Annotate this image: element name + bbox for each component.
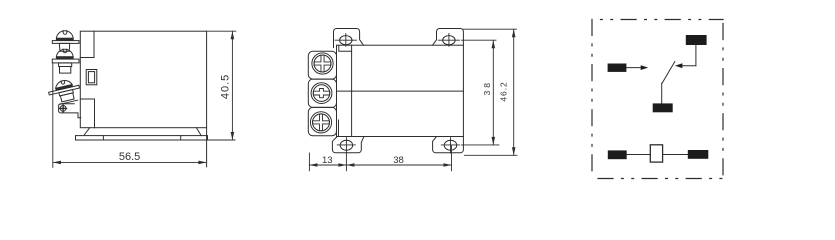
dim 38 left arrow xyxy=(346,163,354,167)
dim 40.5 top arrow xyxy=(231,31,235,39)
coil body xyxy=(650,145,662,162)
contact COM terminal xyxy=(608,64,627,72)
screw B washer plate xyxy=(52,59,79,63)
top-right mounting tab xyxy=(433,29,464,46)
screw A knurled band xyxy=(56,38,73,40)
dim 40.5 line xyxy=(231,31,233,140)
screw B shank lip xyxy=(59,63,72,67)
body mid parting line xyxy=(337,90,464,92)
terminal screw 2 inner xyxy=(313,85,330,102)
terminal screw 1 outer xyxy=(312,53,333,74)
screw C slot notch xyxy=(61,81,65,85)
coil terminal right xyxy=(688,150,709,159)
svg-text:13: 13 xyxy=(322,155,333,166)
svg-text:38: 38 xyxy=(393,155,404,166)
bottom-left mounting tab xyxy=(332,137,364,153)
coil terminal left xyxy=(608,150,627,159)
terminal screw 2 outer xyxy=(311,83,332,104)
bottom-left slot line xyxy=(338,120,340,137)
bottom-left hole crosshair xyxy=(337,138,355,153)
bottom-right hole crosshair xyxy=(441,138,459,153)
COM arrow head xyxy=(641,65,649,70)
top-right mounting hole xyxy=(443,36,455,45)
coil wire right xyxy=(663,154,688,156)
body right edge extension down xyxy=(206,128,208,167)
dim 38v line xyxy=(492,40,494,145)
terminal block 2 xyxy=(308,79,336,107)
terminal screw 1 cross xyxy=(314,55,331,72)
NC arrow line xyxy=(679,65,696,67)
terminal screw 2 cross xyxy=(313,89,329,98)
base bar xyxy=(76,136,208,140)
svg-text:40.5: 40.5 xyxy=(219,74,231,99)
schematic dash-dot border right xyxy=(722,20,724,179)
screw B knurled band xyxy=(56,57,73,59)
body left strip line xyxy=(80,31,94,57)
COM arrow line xyxy=(626,67,644,69)
side slot detail outer xyxy=(86,70,97,85)
dim 56.5 right arrow xyxy=(198,161,206,165)
svg-text:38: 38 xyxy=(482,80,492,95)
dim 46.2 top extension xyxy=(463,28,516,30)
schematic dash-dot border top xyxy=(592,19,723,21)
terminal block 1 xyxy=(308,51,336,79)
bracket screw cross xyxy=(60,105,67,112)
screw terminal A dome xyxy=(56,31,73,39)
blade lead wire xyxy=(661,83,663,103)
bottom bracket tongue xyxy=(59,104,81,118)
dim 40.5 bottom arrow xyxy=(231,132,235,140)
dim 38v top arrow xyxy=(492,40,496,48)
top-left tab slot xyxy=(339,45,352,51)
dim 56.5 line xyxy=(53,161,206,163)
NC lead wire xyxy=(695,45,697,66)
terminal screw 3 outer xyxy=(310,112,331,133)
screw A slot notch xyxy=(63,31,67,35)
base trapezoid right slant xyxy=(196,128,201,136)
dim 46.2 bottom arrow xyxy=(512,147,516,155)
coil wire left xyxy=(627,154,651,156)
dim 13 right arrow xyxy=(338,163,346,167)
dim 40.5 top extension xyxy=(207,30,236,32)
relay body outline (front view) xyxy=(337,45,464,136)
NO terminal xyxy=(653,103,673,112)
NC arrow head xyxy=(675,63,683,68)
dim 13 left extension xyxy=(308,153,310,171)
dim 38 hole extension right xyxy=(451,146,453,171)
svg-text:46.2: 46.2 xyxy=(498,81,508,102)
screw B slot notch xyxy=(63,49,67,53)
dim 38v top extension xyxy=(462,39,497,41)
top-left mounting tab xyxy=(334,29,364,48)
screw terminal B dome xyxy=(56,49,73,57)
screw A shank xyxy=(59,43,70,51)
top-left hole crosshair xyxy=(335,34,357,47)
terminal screw 1 inner xyxy=(314,55,331,72)
svg-text:56.5: 56.5 xyxy=(119,151,140,163)
screw C washer plate xyxy=(49,85,80,95)
schematic dash-dot border left xyxy=(591,20,593,179)
base trapezoid left slant xyxy=(84,128,90,136)
dim 38 right arrow xyxy=(444,163,452,167)
body inner left line xyxy=(351,45,353,136)
relay body outline (side view) xyxy=(80,31,206,128)
schematic dash-dot border bottom xyxy=(592,178,723,180)
bottom dim line xyxy=(309,164,451,166)
movable contact blade xyxy=(662,61,675,83)
dim 56.5 left extension line xyxy=(52,63,54,167)
dim 46.2 bottom extension xyxy=(464,154,517,156)
screw C dome xyxy=(54,79,72,89)
terminal screw 3 cross xyxy=(313,114,330,131)
screw A washer plate xyxy=(52,41,79,44)
bottom-right mounting hole xyxy=(444,140,456,150)
dim 13/38 hole extension left xyxy=(345,153,347,171)
terminal block 3 xyxy=(308,107,336,135)
dim 38v bottom extension xyxy=(462,144,500,146)
dim 46.2 line xyxy=(513,29,515,155)
dim 56.5 left arrow xyxy=(53,161,61,165)
dim 46.2 top arrow xyxy=(512,29,516,37)
bottom-right mounting tab xyxy=(433,137,464,153)
terminal screw 3 inner xyxy=(313,114,330,131)
NC terminal xyxy=(686,35,707,45)
dim 13 left arrow xyxy=(309,163,317,167)
base bar tick 1 xyxy=(102,136,104,140)
dim 40.5 bottom extension xyxy=(208,139,236,141)
screw C base ledge line xyxy=(59,100,78,104)
top-left mounting hole xyxy=(340,36,352,45)
screw C shank lip xyxy=(59,90,73,96)
dim 38v bottom arrow xyxy=(492,137,496,145)
base bar tick 2 xyxy=(180,136,182,140)
screw C shank cup xyxy=(60,93,74,102)
bottom-left mounting hole xyxy=(340,140,352,150)
screw terminal C (tilted) xyxy=(47,77,82,106)
top-right hole crosshair xyxy=(438,34,459,47)
screw B shank cup xyxy=(60,67,71,74)
bracket screw M xyxy=(60,106,66,112)
screw C knurled band xyxy=(56,85,73,91)
side slot detail inner xyxy=(88,72,94,83)
lower-left foot of body xyxy=(80,99,94,128)
